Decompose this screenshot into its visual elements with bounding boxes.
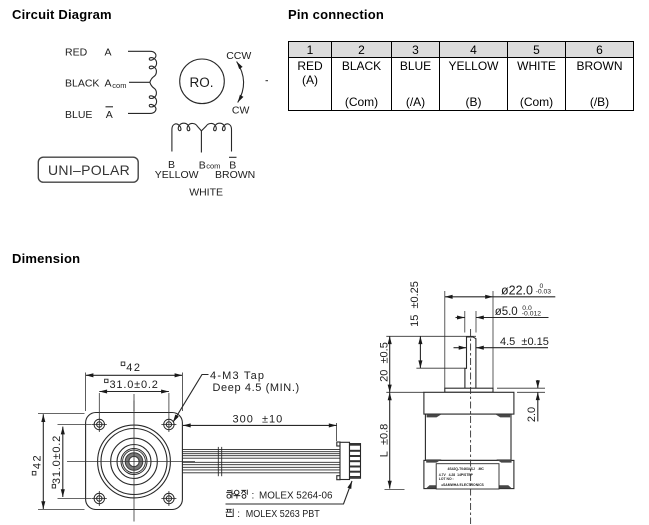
svg-text:ø22.0: ø22.0 (501, 283, 533, 297)
svg-text:BLUE: BLUE (65, 109, 92, 121)
svg-text:BLACK: BLACK (65, 78, 99, 90)
svg-text::: : (237, 509, 240, 520)
svg-text:15 ±0.25: 15 ±0.25 (409, 281, 421, 327)
svg-text:42: 42 (32, 454, 44, 469)
svg-text:2.0: 2.0 (526, 407, 538, 422)
svg-text:RED: RED (65, 47, 88, 59)
svg-text:LOT NO :: LOT NO : (439, 477, 454, 481)
svg-text:ø5.0: ø5.0 (495, 306, 518, 318)
svg-text:-0.012: -0.012 (522, 310, 541, 317)
svg-text:WHITE: WHITE (189, 186, 223, 198)
svg-text:4.5 ±0.15: 4.5 ±0.15 (500, 336, 549, 348)
svg-text:42: 42 (126, 362, 141, 374)
svg-text:A: A (105, 78, 112, 90)
svg-text:4S42Q-T04634SJ .MC: 4S42Q-T04634SJ .MC (448, 467, 485, 471)
svg-text:MOLEX 5263 PBT: MOLEX 5263 PBT (246, 509, 320, 520)
svg-text:RO.: RO. (190, 75, 214, 90)
svg-text:CW: CW (232, 104, 250, 116)
svg-text:20 ±0.5: 20 ±0.5 (379, 342, 391, 382)
svg-text:UNI–POLAR: UNI–POLAR (48, 162, 130, 178)
svg-text:31.0±0.2: 31.0±0.2 (110, 379, 159, 391)
svg-text:4-M3 Tap: 4-M3 Tap (210, 370, 265, 382)
svg-text:4.7V 4.28 14P/STEP: 4.7V 4.28 14P/STEP (439, 473, 474, 477)
svg-text:com: com (112, 81, 126, 90)
svg-text:300 ±10: 300 ±10 (233, 414, 284, 426)
svg-text:L ±0.8: L ±0.8 (379, 424, 391, 458)
svg-text:MOLEX 5264-06: MOLEX 5264-06 (259, 491, 333, 502)
svg-text:●SAMWHA ELECTRONICS: ●SAMWHA ELECTRONICS (441, 483, 485, 487)
svg-text::: : (252, 491, 255, 502)
svg-text:Deep 4.5 (MIN.): Deep 4.5 (MIN.) (213, 382, 300, 394)
svg-text:A: A (106, 109, 113, 121)
svg-text:BROWN: BROWN (215, 169, 255, 181)
svg-text:A: A (105, 47, 112, 59)
svg-text:CCW: CCW (226, 50, 251, 62)
svg-text:31.0±0.2: 31.0±0.2 (51, 435, 63, 484)
svg-text:YELLOW: YELLOW (155, 169, 199, 181)
svg-text:B: B (199, 159, 206, 171)
svg-text:-0.03: -0.03 (536, 289, 552, 296)
